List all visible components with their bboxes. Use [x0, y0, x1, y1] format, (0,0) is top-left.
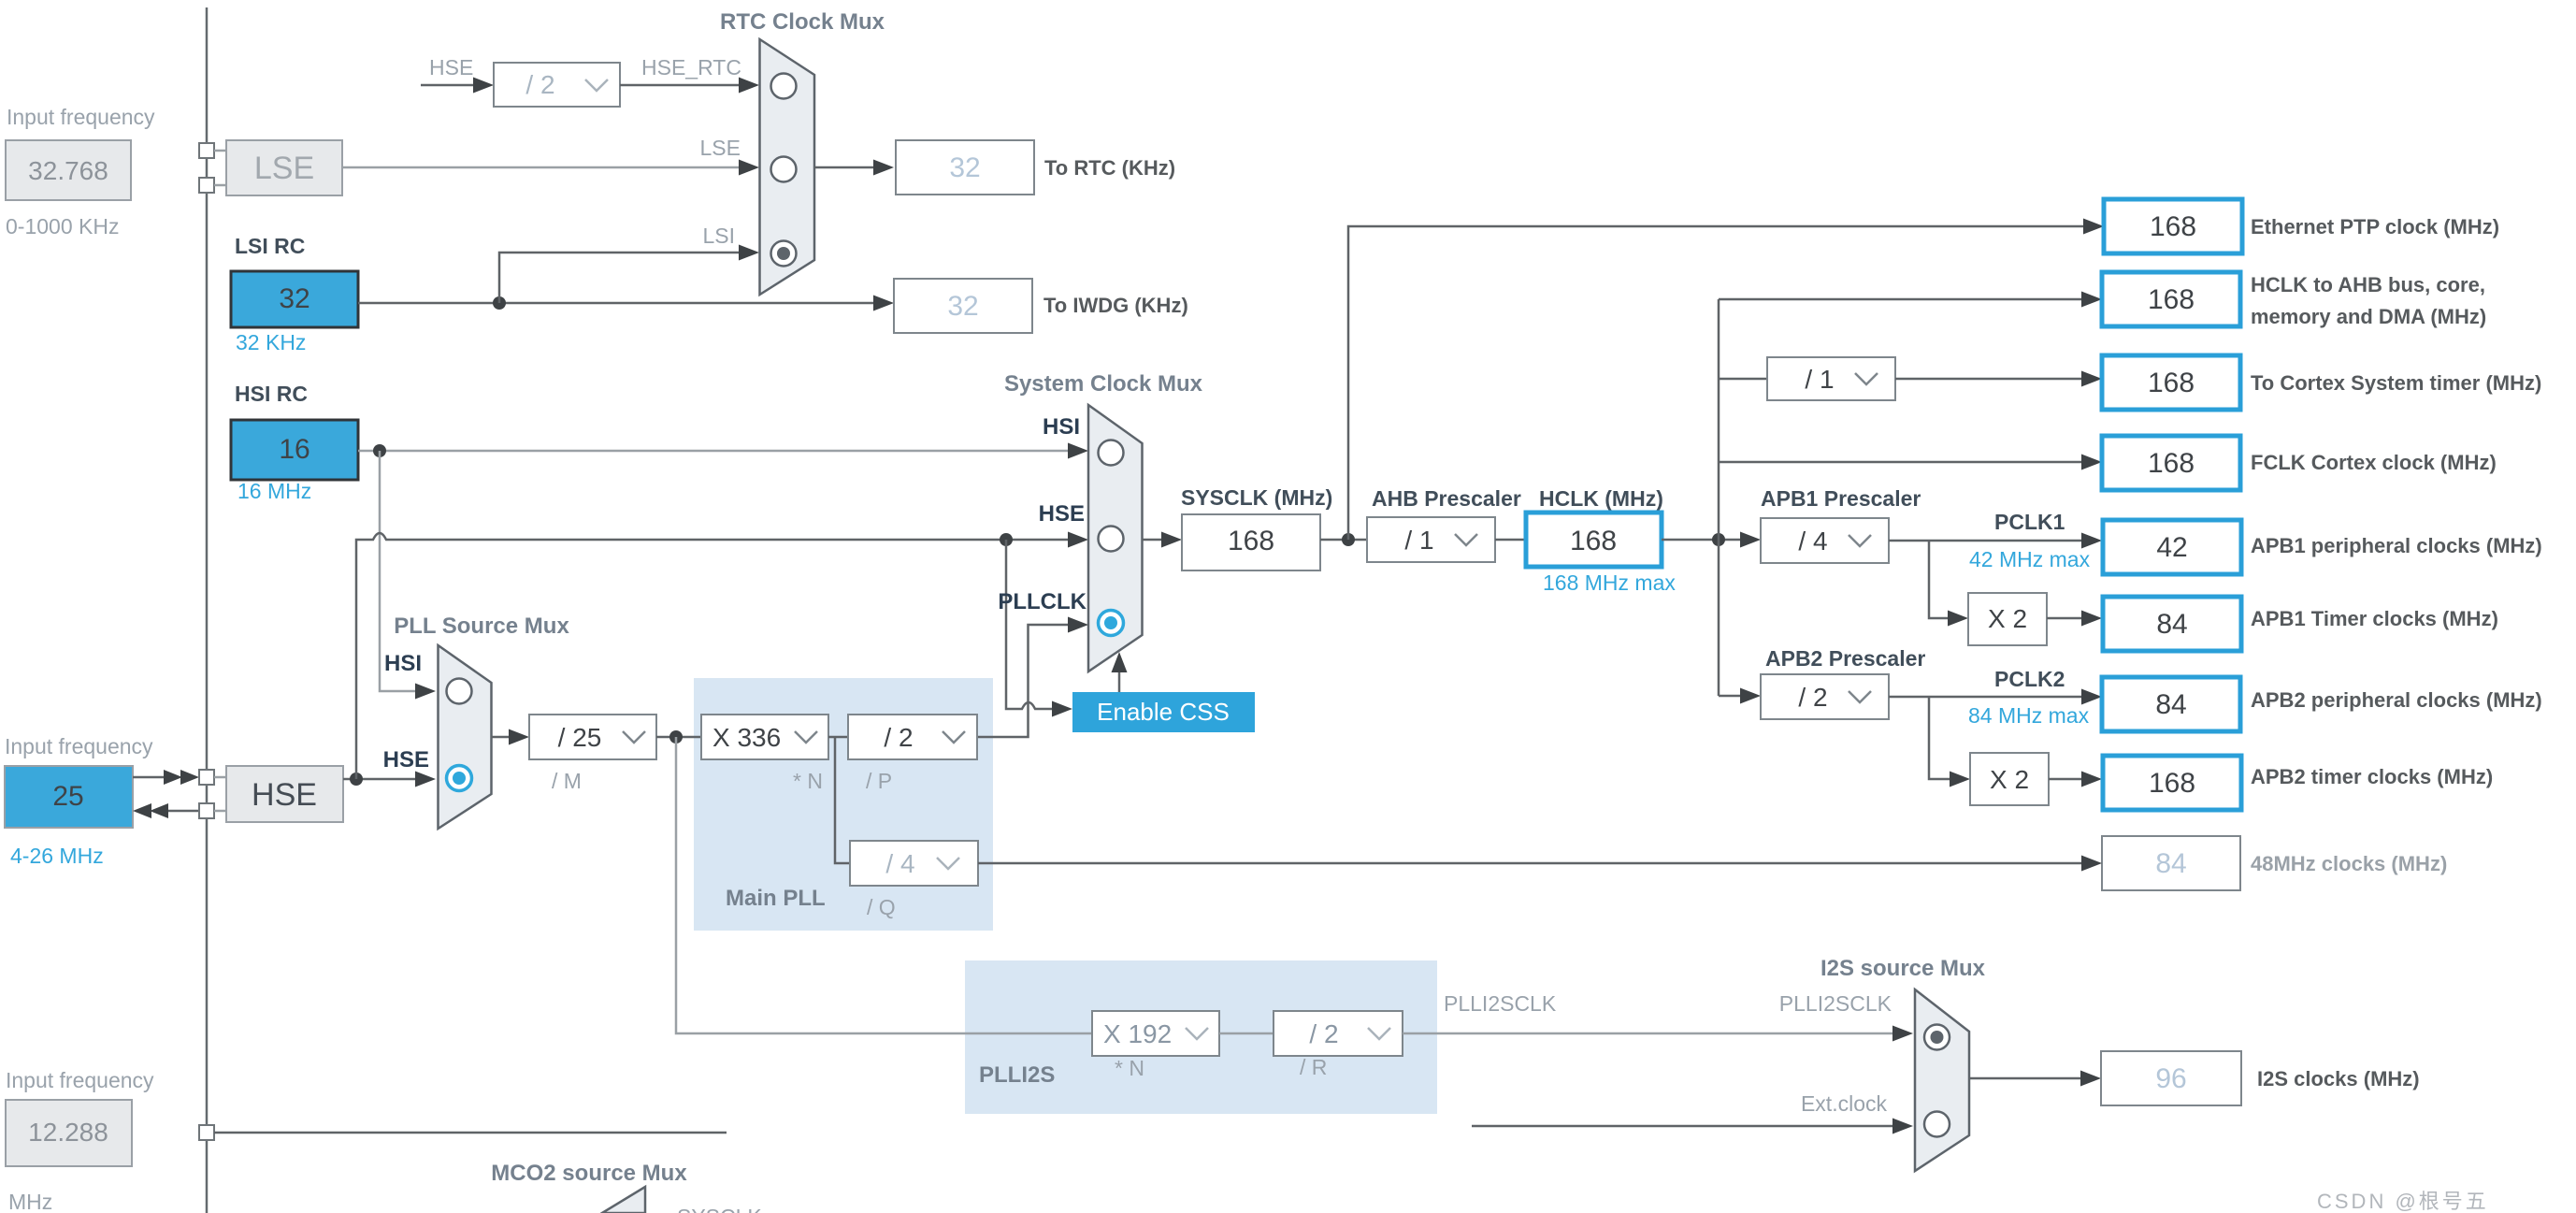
svg-text:Ethernet PTP clock (MHz): Ethernet PTP clock (MHz) — [2251, 215, 2499, 238]
svg-text:/ 2: / 2 — [884, 723, 913, 752]
svg-text:Main PLL: Main PLL — [726, 886, 826, 911]
sys mux radio HSE — [1099, 527, 1124, 552]
sys mux radio PLLCLK (selected) — [1099, 611, 1124, 636]
svg-text:/ 2: / 2 — [1798, 683, 1827, 712]
Main PLL panel — [694, 678, 993, 931]
svg-text:RTC Clock Mux: RTC Clock Mux — [720, 9, 885, 35]
svg-text:X 2: X 2 — [1988, 604, 2027, 633]
To IWDG value box — [894, 279, 1032, 333]
junction after SYSCLK — [1342, 533, 1355, 546]
wire: LSE to RTC mux — [342, 166, 741, 169]
svg-text:0-1000 KHz: 0-1000 KHz — [6, 214, 119, 238]
wire: HSE branch up and right to system clock mux (hop over HSI vertical) — [356, 533, 1068, 779]
RTC mux radio HSE_RTC — [771, 74, 797, 99]
junction to PLLI2S — [669, 730, 683, 744]
wire: AHB prescaler to HCLK — [1495, 539, 1526, 542]
svg-text:HSE: HSE — [429, 55, 473, 79]
wire: HSI branch down to PLL source mux — [380, 451, 415, 691]
wire: divider to RTC mux — [620, 84, 739, 87]
wire: *N to /R — [1219, 1032, 1274, 1035]
Enable CSS button — [1072, 692, 1255, 732]
wire: CSS feed down from HSE wire (hop over PLLCLK vertical) — [1006, 540, 1054, 709]
PLL source mux body — [439, 645, 492, 829]
wire: ext clock to I2S mux — [1472, 1125, 1892, 1128]
svg-text:HSI RC: HSI RC — [235, 382, 308, 406]
divider /Q 4 — [850, 841, 978, 886]
svg-text:84 MHz max: 84 MHz max — [1968, 703, 2090, 728]
HSE input frequency box 25 — [5, 766, 133, 828]
svg-text:42 MHz max: 42 MHz max — [1969, 547, 2091, 571]
svg-text:HSE: HSE — [1039, 501, 1085, 527]
svg-text:Ext.clock: Ext.clock — [1801, 1091, 1888, 1116]
svg-text:APB2 peripheral clocks (MHz): APB2 peripheral clocks (MHz) — [2251, 688, 2542, 712]
I2S mux radio PLLI2SCLK (selected) — [1924, 1025, 1950, 1050]
svg-text:System Clock Mux: System Clock Mux — [1004, 371, 1203, 397]
svg-text:32: 32 — [279, 283, 309, 314]
svg-text:/ 1: / 1 — [1805, 365, 1834, 394]
svg-text:/ 2: / 2 — [1309, 1019, 1338, 1048]
oscillator LSI RC 32 — [231, 271, 358, 327]
svg-text:16: 16 — [279, 434, 309, 465]
HCLK to AHB box 168 — [2102, 272, 2240, 326]
svg-text:SYSCLK (MHz): SYSCLK (MHz) — [1181, 485, 1332, 510]
svg-text:X 336: X 336 — [712, 723, 781, 752]
wire: HSE into RTC divider — [421, 84, 475, 87]
oscillator HSE — [226, 766, 343, 822]
wire: RTC mux to RTC box — [814, 166, 873, 169]
svg-text:48MHz clocks (MHz): 48MHz clocks (MHz) — [2251, 852, 2447, 875]
svg-text:168: 168 — [2148, 284, 2195, 315]
svg-text:/ Q: / Q — [867, 895, 896, 919]
svg-text:Enable CSS: Enable CSS — [1097, 698, 1230, 726]
wire: X2 to APB1 timer box — [2047, 617, 2081, 620]
oscillator HSI RC 16 — [231, 420, 358, 480]
svg-text:/ R: / R — [1300, 1055, 1327, 1079]
svg-text:LSE: LSE — [254, 151, 314, 186]
svg-text:To IWDG (KHz): To IWDG (KHz) — [1043, 294, 1188, 317]
APB1 prescaler /4 — [1761, 518, 1889, 563]
svg-text:I2S clocks (MHz): I2S clocks (MHz) — [2257, 1067, 2420, 1090]
wire: *N to /P divider — [828, 736, 848, 739]
svg-text:25: 25 — [52, 781, 83, 812]
wire: 25 box to HSE port (double arrow) — [133, 776, 166, 779]
wire: PCLK2 branch to APB2 timer X2 — [1929, 697, 1951, 779]
svg-text:HCLK (MHz): HCLK (MHz) — [1539, 486, 1663, 511]
junction on HSI wire — [373, 444, 386, 457]
svg-text:168: 168 — [2148, 368, 2195, 398]
multiplier *N X336 — [701, 715, 828, 759]
svg-text:APB1 peripheral clocks (MHz): APB1 peripheral clocks (MHz) — [2251, 534, 2542, 557]
divider /M 25 — [529, 715, 656, 759]
svg-text:X 192: X 192 — [1103, 1019, 1172, 1048]
svg-text:PCLK2: PCLK2 — [1994, 667, 2065, 691]
wire: trunk to cortex prescaler — [1719, 378, 1767, 381]
svg-text:CSDN @根号五: CSDN @根号五 — [2317, 1190, 2489, 1213]
AHB prescaler /1 — [1367, 517, 1495, 562]
svg-text:168: 168 — [2148, 448, 2195, 479]
svg-text:APB2 Prescaler: APB2 Prescaler — [1765, 646, 1925, 671]
svg-text:HSI: HSI — [1043, 414, 1080, 440]
svg-text:Input frequency: Input frequency — [5, 734, 153, 758]
wire: cortex prescaler to cortex timer box — [1895, 378, 2081, 381]
wire: /R to I2S mux — [1403, 1032, 1892, 1035]
junction on HSE-to-sysmux wire — [1000, 533, 1013, 546]
svg-text:PLLI2SCLK: PLLI2SCLK — [1444, 991, 1557, 1016]
wire: trunk corner to APB2 prescaler — [1719, 695, 1741, 698]
cortex prescaler /1 — [1767, 357, 1895, 400]
svg-text:32: 32 — [947, 291, 978, 322]
MCO2 mux body (clipped at bottom) — [602, 1187, 645, 1213]
svg-text:* N: * N — [1115, 1056, 1144, 1080]
svg-text:12.288: 12.288 — [28, 1118, 108, 1147]
svg-text:Input frequency: Input frequency — [7, 105, 155, 129]
svg-text:MHz: MHz — [8, 1190, 52, 1213]
svg-text:42: 42 — [2156, 532, 2187, 563]
48MHz clocks box 84 — [2102, 836, 2240, 890]
HCLK value box 168 — [1526, 513, 1662, 567]
wire: LSI to IWDG — [358, 302, 875, 305]
svg-text:/ 25: / 25 — [558, 723, 602, 752]
APB2 timer clocks box 168 — [2103, 756, 2241, 810]
svg-text:SYSCLK: SYSCLK — [677, 1205, 762, 1213]
svg-text:/ 4: / 4 — [1798, 527, 1827, 556]
LSE pin port lower — [199, 178, 214, 193]
svg-text:APB1 Prescaler: APB1 Prescaler — [1761, 486, 1921, 511]
wire: HCLK to APB trunk — [1662, 539, 1741, 542]
wire: port stubs to LSE — [214, 150, 226, 152]
svg-text:To RTC (KHz): To RTC (KHz) — [1044, 156, 1175, 180]
svg-text:168: 168 — [2149, 768, 2195, 799]
svg-text:LSE: LSE — [700, 136, 741, 160]
svg-text:HSE: HSE — [383, 747, 429, 773]
wire: trunk to FCLK — [1719, 461, 2081, 464]
I2S ext input frequency box 12.288 — [6, 1100, 132, 1166]
multiplier X2 APB1 — [1968, 593, 2047, 645]
svg-text:84: 84 — [2156, 609, 2187, 640]
svg-text:PLLI2S: PLLI2S — [979, 1062, 1055, 1088]
svg-text:PLLCLK: PLLCLK — [998, 589, 1087, 614]
svg-text:LSI RC: LSI RC — [235, 234, 305, 258]
multiplier X2 APB2 — [1970, 753, 2049, 805]
oscillator LSE — [226, 140, 342, 195]
wire: SYSCLK to AHB prescaler — [1320, 539, 1367, 542]
svg-text:memory and DMA (MHz): memory and DMA (MHz) — [2251, 305, 2486, 328]
RTC mux radio LSI (selected) — [771, 241, 797, 267]
wire: PLLCLK from main PLL to sys mux — [977, 625, 1068, 737]
wire: LSI branch up to RTC mux — [499, 253, 739, 303]
svg-text:X 2: X 2 — [1990, 765, 2029, 794]
wire: trunk vertical — [1718, 299, 1720, 696]
svg-text:168 MHz max: 168 MHz max — [1543, 570, 1676, 595]
svg-text:/ 2: / 2 — [525, 70, 554, 99]
divider HSE_RTC /2 — [494, 63, 620, 107]
wire: down to PLLI2S *N — [676, 737, 1092, 1033]
svg-text:32: 32 — [949, 152, 980, 183]
svg-text:32.768: 32.768 — [28, 156, 108, 185]
svg-text:APB2 timer clocks (MHz): APB2 timer clocks (MHz) — [2251, 765, 2493, 788]
svg-text:168: 168 — [1228, 526, 1274, 556]
wire: CSS arrow up into sys mux — [1118, 666, 1121, 692]
svg-text:168: 168 — [1570, 526, 1617, 556]
HSE pin port lower — [199, 803, 214, 818]
wire: APB1 prescaler to PCLK1 — [1889, 540, 2081, 542]
svg-text:96: 96 — [2155, 1063, 2186, 1094]
svg-text:168: 168 — [2150, 211, 2196, 242]
Ethernet PTP clock box 168 — [2104, 199, 2242, 253]
svg-text:Input frequency: Input frequency — [6, 1068, 154, 1092]
svg-text:MCO2 source Mux: MCO2 source Mux — [491, 1161, 687, 1186]
divider /R 2 — [1274, 1011, 1403, 1056]
wire stubs to HSE box — [214, 776, 226, 779]
PLL mux radio HSE (selected) — [447, 766, 472, 791]
svg-text:HSE: HSE — [252, 777, 317, 813]
svg-text:PLLI2SCLK: PLLI2SCLK — [1779, 991, 1892, 1016]
FCLK cortex clock box 168 — [2102, 436, 2240, 490]
wire: branch down to /Q divider — [835, 737, 850, 863]
To RTC value box — [896, 140, 1034, 195]
junction on trunk — [1712, 533, 1725, 546]
LSE input frequency box 32.768 — [6, 140, 131, 200]
junction on HSE wire — [350, 773, 363, 786]
APB1 timer clocks box 84 — [2103, 597, 2241, 651]
APB2 prescaler /2 — [1761, 674, 1889, 719]
Cortex system timer box 168 — [2102, 355, 2240, 410]
system clock mux body — [1088, 405, 1143, 671]
svg-text:HSE_RTC: HSE_RTC — [641, 55, 741, 79]
I2S clocks box 96 — [2101, 1051, 2241, 1105]
wire: sys mux to SYSCLK — [1143, 539, 1162, 542]
svg-text:LSI: LSI — [702, 224, 735, 248]
svg-text:I2S source Mux: I2S source Mux — [1820, 956, 1986, 981]
svg-text:84: 84 — [2155, 848, 2186, 879]
APB2 peripheral clocks box 84 — [2102, 677, 2240, 731]
wire: HSE port back to 25 box (double arrow) — [166, 810, 199, 813]
svg-text:FCLK Cortex clock (MHz): FCLK Cortex clock (MHz) — [2251, 451, 2497, 474]
svg-text:HSI: HSI — [384, 651, 422, 676]
wire: SYSCLK branch up to ethernet PTP — [1348, 226, 2083, 540]
wire: APB2 prescaler to PCLK2 — [1889, 696, 2081, 699]
svg-text:/ 1: / 1 — [1404, 526, 1433, 555]
wire: PCLK1 branch to APB1 timer X2 — [1929, 541, 1950, 618]
svg-text:PLL Source Mux: PLL Source Mux — [394, 614, 569, 639]
svg-text:/ 4: / 4 — [885, 849, 914, 878]
wire: HSI to system clock mux — [358, 450, 1068, 453]
svg-text:/ P: / P — [866, 769, 892, 793]
multiplier PLLI2S *N X192 — [1092, 1011, 1219, 1056]
wire: HSE out to PLL source mux — [343, 778, 415, 781]
I2S source mux body — [1915, 989, 1969, 1171]
svg-text:HCLK to AHB bus, core,: HCLK to AHB bus, core, — [2251, 273, 2485, 296]
svg-text:/ M: / M — [552, 769, 582, 793]
SYSCLK value box 168 — [1182, 514, 1320, 570]
I2S mux radio Ext.clock — [1924, 1112, 1950, 1137]
RTC mux radio LSE — [771, 157, 797, 182]
LSE pin port upper — [199, 143, 214, 158]
wire: PLL mux to /M divider — [492, 736, 510, 739]
svg-text:AHB Prescaler: AHB Prescaler — [1372, 486, 1521, 511]
wire: I2S CKIN to MCO2 area — [214, 1132, 727, 1134]
svg-text:32 KHz: 32 KHz — [236, 330, 306, 354]
wire: /Q to 48MHz clocks — [978, 862, 2081, 865]
svg-text:PCLK1: PCLK1 — [1994, 510, 2065, 534]
wire: I2S mux to I2S clocks box — [1969, 1077, 2080, 1080]
svg-text:* N: * N — [793, 769, 823, 793]
svg-text:16 MHz: 16 MHz — [237, 479, 311, 503]
wire: X2 to APB2 timer box — [2049, 778, 2081, 781]
wire: /M to *N multiplier — [656, 736, 701, 739]
clock tree bus (left vertical rail) — [206, 7, 209, 1213]
APB1 peripheral clocks box 42 — [2103, 520, 2241, 574]
junction on LSI wire — [493, 296, 506, 310]
PLLI2S panel — [965, 960, 1437, 1114]
I2S CKIN pin port — [199, 1125, 214, 1140]
svg-text:To Cortex System timer (MHz): To Cortex System timer (MHz) — [2251, 371, 2541, 395]
svg-text:84: 84 — [2155, 689, 2186, 720]
wire: trunk to HCLK AHB bus box — [1719, 298, 2081, 301]
svg-text:4-26 MHz: 4-26 MHz — [10, 844, 104, 868]
HSE pin port upper — [199, 770, 214, 785]
sys mux radio HSI — [1099, 440, 1124, 466]
PLL mux radio HSI — [447, 679, 472, 704]
svg-text:APB1 Timer clocks (MHz): APB1 Timer clocks (MHz) — [2251, 607, 2498, 630]
divider /P 2 — [848, 715, 977, 759]
RTC clock mux body — [760, 39, 815, 295]
